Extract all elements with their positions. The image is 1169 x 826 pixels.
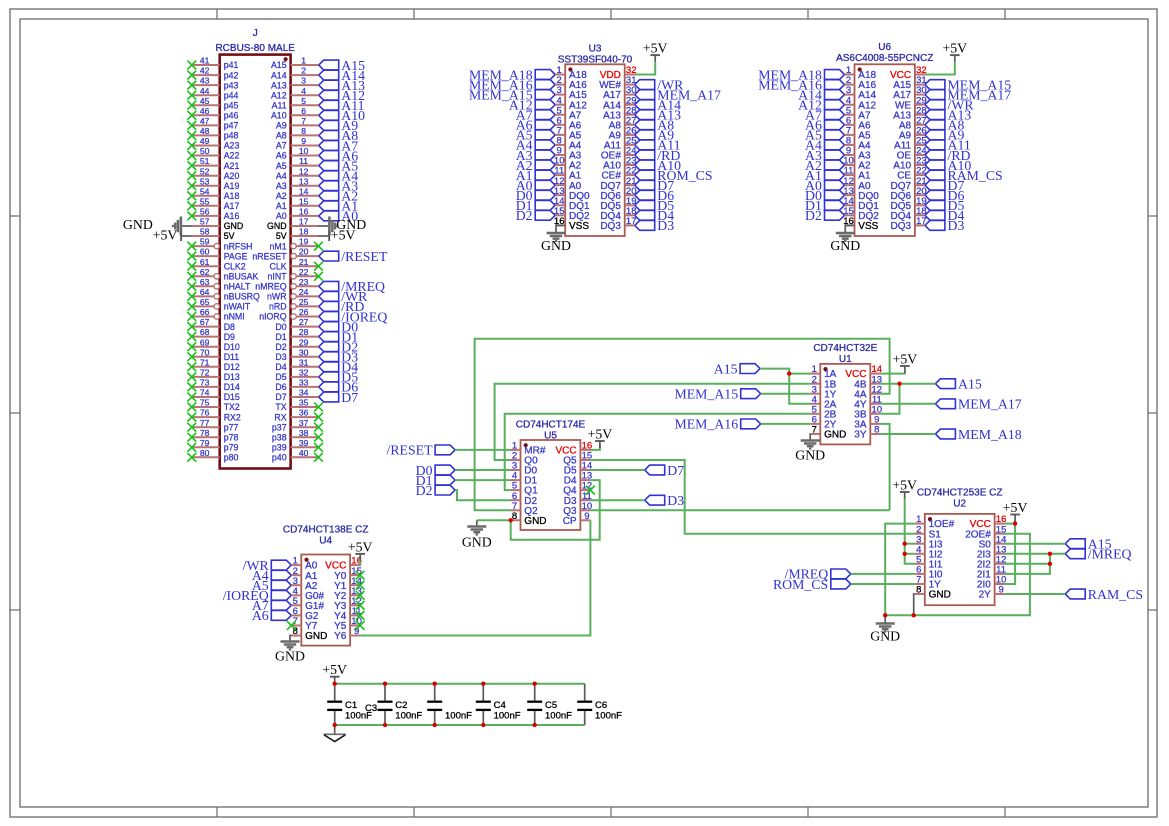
net label /RD xyxy=(925,148,971,163)
svg-text:D3: D3 xyxy=(948,218,965,233)
net label A12 xyxy=(319,88,365,103)
net label A0 xyxy=(805,178,844,193)
J pin 79 (p79) xyxy=(192,438,239,453)
svg-text:67: 67 xyxy=(200,317,210,327)
no-connect X xyxy=(187,272,196,281)
net label D3 xyxy=(319,350,359,365)
wire U2 2I2 tap xyxy=(1005,563,1050,565)
junction +5V/1I2 xyxy=(903,552,907,556)
+5V stem to rail xyxy=(334,683,336,685)
wire U5 Q5 to U2 S1 xyxy=(590,460,914,534)
J pin 32 (D5) xyxy=(275,368,318,383)
svg-text:RX2: RX2 xyxy=(224,412,241,422)
svg-text:100nF: 100nF xyxy=(545,710,572,721)
svg-text:42: 42 xyxy=(200,66,210,76)
J pin 54 (A18) xyxy=(192,186,240,201)
wire U1 4Y to MEM_A17 xyxy=(880,403,935,405)
U5 pin 15 (Q5) xyxy=(563,451,592,467)
svg-text:A16: A16 xyxy=(224,211,240,221)
svg-text:30: 30 xyxy=(299,347,309,357)
svg-text:A12: A12 xyxy=(271,90,287,100)
wire U1 3Y to MEM_A18 xyxy=(880,433,935,435)
net label A12 xyxy=(798,98,844,113)
U6 pin 21 (DQ7) xyxy=(891,176,927,192)
net label MEM_A16 xyxy=(469,77,555,92)
U3 pin 1 (A18) xyxy=(555,65,587,81)
junction U2 VCC xyxy=(1013,521,1017,525)
J pin 19 (nM1) xyxy=(269,237,318,252)
J pin 76 (RX2) xyxy=(192,408,241,423)
net label A3 xyxy=(805,148,844,163)
J GND power (pin 17) xyxy=(319,225,329,227)
U6 pin 9 (A3) xyxy=(845,146,871,162)
IC U2 body xyxy=(925,514,995,605)
svg-text:39: 39 xyxy=(299,438,309,448)
svg-text:59: 59 xyxy=(200,237,210,247)
svg-text:34: 34 xyxy=(299,388,309,398)
svg-text:27: 27 xyxy=(299,317,309,327)
U6 pin 14 (DQ1) xyxy=(843,196,879,212)
svg-text:52: 52 xyxy=(200,166,210,176)
U6 pin 24 (OE) xyxy=(897,146,927,162)
svg-text:77: 77 xyxy=(200,418,210,428)
U2 pin 2 (S1) xyxy=(915,524,941,540)
svg-text:9: 9 xyxy=(584,511,589,522)
U1 pin 1 (1A) xyxy=(810,364,836,380)
svg-text:GND: GND xyxy=(830,238,860,253)
J pin 24 (nWR) xyxy=(267,287,318,302)
wire /MREQ branch to 2I1 xyxy=(1005,554,1050,574)
no-connect X xyxy=(187,242,196,251)
no-connect X xyxy=(187,352,196,361)
J pin 71 (D12) xyxy=(192,357,240,372)
U6 pin 19 (DQ5) xyxy=(891,196,927,212)
wire +5V decoupling top rail xyxy=(335,683,585,685)
U1 pin 11 (4Y) xyxy=(854,394,881,410)
IC U4 reference/value labels xyxy=(283,524,369,546)
net label MEM_A16 xyxy=(674,417,760,432)
J pin 61 (CLK2) xyxy=(192,257,246,272)
svg-text:2: 2 xyxy=(301,66,306,76)
net label D0 xyxy=(319,319,359,334)
net label /IOREQ xyxy=(319,309,388,324)
ground symbol (U4) xyxy=(275,642,305,664)
net label D5 xyxy=(319,370,359,385)
wire U2 1I2 tap xyxy=(905,553,915,555)
svg-text:13: 13 xyxy=(299,176,309,186)
svg-text:GND: GND xyxy=(795,448,825,463)
svg-text:GND: GND xyxy=(275,649,305,664)
svg-text:69: 69 xyxy=(200,337,210,347)
U3 pin 24 (OE#) xyxy=(601,146,637,162)
wire U2 VCC xyxy=(1005,523,1016,525)
svg-text:1: 1 xyxy=(301,56,306,66)
J pin 68 (D9) xyxy=(192,327,235,342)
U1 pin 5 (2B) xyxy=(810,404,836,420)
svg-text:D7: D7 xyxy=(275,392,286,402)
no-connect X xyxy=(187,71,196,80)
J pin 69 (D10) xyxy=(192,337,240,352)
net label ROM_CS xyxy=(635,168,713,183)
J pin 14 (A2) xyxy=(276,186,319,201)
U2 pin 1 (1OE#) xyxy=(915,514,955,530)
U6 pin 6 (A6) xyxy=(845,115,871,131)
J pin 50 (A22) xyxy=(192,146,240,161)
U3 pin 9 (A3) xyxy=(555,146,581,162)
svg-text:A11: A11 xyxy=(272,100,287,110)
U5 pin 14 (D5) xyxy=(564,461,592,477)
junction /MREQ/2I3 xyxy=(1048,552,1052,556)
U3 pin 2 (A16) xyxy=(555,75,587,91)
no-connect X xyxy=(187,121,196,130)
no-connect X xyxy=(187,141,196,150)
svg-text:A21: A21 xyxy=(224,161,240,171)
svg-text:D9: D9 xyxy=(224,332,235,342)
net label /RESET xyxy=(319,249,388,264)
U6 pin 23 (A10) xyxy=(893,156,926,172)
svg-text:28: 28 xyxy=(299,327,309,337)
svg-text:SST39SF040-70: SST39SF040-70 xyxy=(558,55,633,66)
U6 pin 28 (A13) xyxy=(893,105,926,121)
J pin 55 (A17) xyxy=(192,196,240,211)
U3 pin 25 (A11) xyxy=(604,136,637,152)
U6 pin 26 (A9) xyxy=(899,126,927,142)
no-connect X xyxy=(187,292,196,301)
net label A10 xyxy=(319,108,365,123)
svg-text:100nF: 100nF xyxy=(445,710,472,721)
svg-text:17: 17 xyxy=(916,216,927,227)
J pin 13 (A3) xyxy=(276,176,319,191)
no-connect X xyxy=(187,433,196,442)
svg-text:DQ3: DQ3 xyxy=(600,221,621,232)
svg-text:U4: U4 xyxy=(319,535,332,546)
svg-text:A18: A18 xyxy=(224,191,240,201)
U3 pin 7 (A5) xyxy=(555,126,581,142)
wire D0 to U5 xyxy=(455,469,510,471)
net label A11 xyxy=(635,138,681,153)
no-connect X xyxy=(187,61,196,70)
svg-text:GND: GND xyxy=(824,430,846,441)
+5V power (U5) xyxy=(588,426,613,448)
svg-text:A22: A22 xyxy=(224,151,240,161)
svg-text:p78: p78 xyxy=(224,432,239,442)
svg-text:ROM_CS: ROM_CS xyxy=(773,577,828,592)
svg-text:19: 19 xyxy=(299,237,309,247)
J pin 51 (A21) xyxy=(192,156,240,171)
no-connect X xyxy=(356,571,365,580)
no-connect X xyxy=(187,373,196,382)
svg-text:66: 66 xyxy=(200,307,210,317)
svg-text:AS6C4008-55PCNCZ: AS6C4008-55PCNCZ xyxy=(836,53,933,64)
svg-text:A19: A19 xyxy=(224,181,240,191)
svg-text:41: 41 xyxy=(200,56,210,66)
U3 pin 28 (A13) xyxy=(603,105,636,121)
U3 pin 18 (DQ4) xyxy=(600,206,636,222)
svg-text:p37: p37 xyxy=(272,422,287,432)
wire A15 to U1 1A xyxy=(760,369,810,374)
J pin 31 (D4) xyxy=(275,357,318,372)
net label A8 xyxy=(319,128,359,143)
svg-text:GND: GND xyxy=(462,535,492,550)
svg-text:+5V: +5V xyxy=(892,477,917,492)
U2 pin 7 (1Y) xyxy=(915,575,941,591)
U5 pin 12 (Q4) xyxy=(563,481,592,497)
net label A10 xyxy=(925,158,971,173)
svg-text:GND: GND xyxy=(305,631,327,642)
net label /MREQ xyxy=(1065,547,1131,562)
svg-text:GND: GND xyxy=(929,590,951,601)
U1 GND connection xyxy=(809,434,811,441)
svg-text:A14: A14 xyxy=(271,70,287,80)
svg-text:RCBUS-80 MALE: RCBUS-80 MALE xyxy=(215,43,295,54)
connector J (RCBUS-80 MALE) body xyxy=(220,55,291,469)
svg-text:17: 17 xyxy=(299,217,309,227)
+5V power (U1) xyxy=(893,351,918,373)
net label A11 xyxy=(319,98,365,113)
capacitor C2 100nF xyxy=(378,684,423,725)
J pin 72 (D13) xyxy=(192,368,240,383)
no-connect X xyxy=(187,101,196,110)
U6 pin 29 (WE) xyxy=(895,95,927,111)
U1 pin 7 (GND) xyxy=(810,425,846,441)
U3 pin 26 (A9) xyxy=(609,126,637,142)
wire U5 D4 to GND tie xyxy=(511,480,600,540)
svg-text:11: 11 xyxy=(299,156,308,166)
U1 pin 8 (3Y) xyxy=(854,425,880,441)
U6 pin 25 (A11) xyxy=(894,136,927,152)
svg-text:GND: GND xyxy=(123,217,153,232)
J pin 43 (p43) xyxy=(192,76,239,91)
no-connect X xyxy=(187,131,196,140)
svg-text:76: 76 xyxy=(200,408,210,418)
J GND left text xyxy=(123,217,153,232)
svg-text:D13: D13 xyxy=(224,372,240,382)
svg-text:60: 60 xyxy=(200,247,210,257)
net label A5 xyxy=(805,128,844,143)
wire A15 branch to U1 3B xyxy=(880,384,899,414)
svg-text:75: 75 xyxy=(200,398,210,408)
J pin 27 (D0) xyxy=(275,317,318,332)
no-connect X xyxy=(187,393,196,402)
svg-text:31: 31 xyxy=(299,357,309,367)
net label A6 xyxy=(319,148,359,163)
U2 pin 15 (2OE#) xyxy=(965,524,1006,540)
J pin 6 (A10) xyxy=(271,106,319,121)
J pin 23 (nMREQ) xyxy=(255,277,318,292)
U6 VSS ground connection xyxy=(845,225,854,233)
U2 pin 6 (1I0) xyxy=(915,565,943,581)
net label D1 xyxy=(319,329,359,344)
J pin 7 (A9) xyxy=(276,116,319,131)
U3 VSS ground connection xyxy=(556,225,565,233)
svg-text:MEM_A16: MEM_A16 xyxy=(674,417,738,432)
U5 pin 5 (Q1) xyxy=(511,481,539,497)
svg-text:5V: 5V xyxy=(276,231,287,241)
U4 pin 6 (G2) xyxy=(291,606,319,622)
J pin 39 (p39) xyxy=(272,438,319,453)
no-connect X xyxy=(187,91,196,100)
svg-text:CP: CP xyxy=(563,516,577,527)
svg-text:A9: A9 xyxy=(276,121,287,131)
J GND right text xyxy=(336,217,366,232)
svg-text:D11: D11 xyxy=(224,352,240,362)
net label A15 xyxy=(1065,537,1111,552)
U6 pin 22 (CE) xyxy=(897,166,926,182)
U3 pin 19 (DQ5) xyxy=(600,196,636,212)
net label D6 xyxy=(635,188,675,203)
no-connect X xyxy=(356,611,365,620)
no-connect X xyxy=(187,383,196,392)
J pin 21 (CLK) xyxy=(269,257,318,272)
U3 pin 32 (VDD) xyxy=(600,65,637,81)
J pin 33 (D6) xyxy=(275,378,318,393)
U1 pin 6 (2Y) xyxy=(810,415,836,431)
svg-text:40: 40 xyxy=(299,448,309,458)
svg-text:48: 48 xyxy=(200,126,210,136)
svg-text:D10: D10 xyxy=(224,342,240,352)
svg-text:35: 35 xyxy=(299,398,309,408)
no-connect X xyxy=(187,161,196,170)
net label /WR xyxy=(925,98,974,113)
U1 pin 9 (3A) xyxy=(854,415,880,431)
no-connect X xyxy=(187,423,196,432)
junction cap bottom rail xyxy=(433,723,437,727)
J pin 77 (p77) xyxy=(192,418,239,433)
svg-text:100nF: 100nF xyxy=(595,710,622,721)
J pin 63 (nHALT) xyxy=(192,277,251,292)
J pin 9 (A7) xyxy=(276,136,319,151)
svg-text:29: 29 xyxy=(299,337,309,347)
J pin 57 (GND) xyxy=(192,217,243,232)
J pin 34 (D7) xyxy=(275,388,318,403)
net label /WR xyxy=(243,558,292,573)
net label D7 xyxy=(635,178,675,193)
connector J reference/value labels xyxy=(215,28,295,54)
U2 pin 14 (S0) xyxy=(979,534,1007,550)
wire U5 Q1 to U1 2B xyxy=(505,414,811,490)
svg-text:CD74HCT253E CZ: CD74HCT253E CZ xyxy=(917,488,1003,499)
U6 pin 10 (A2) xyxy=(843,156,871,172)
ground symbol (U5) xyxy=(462,527,492,550)
junction A15/4B/3B xyxy=(897,382,901,386)
no-connect X xyxy=(356,621,365,630)
svg-text:p79: p79 xyxy=(224,443,239,453)
net label D7 xyxy=(925,178,965,193)
no-connect X xyxy=(187,151,196,160)
U5 pin 8 (GND) xyxy=(511,511,547,527)
svg-text:58: 58 xyxy=(200,227,210,237)
svg-text:D14: D14 xyxy=(224,382,240,392)
svg-text:nBUSAK: nBUSAK xyxy=(224,272,259,282)
wire U2 S0 to A15 xyxy=(1005,543,1066,545)
U6 pin 16 (VSS) xyxy=(843,216,878,232)
U6 pin 15 (DQ2) xyxy=(843,206,879,222)
no-connect X xyxy=(187,413,196,422)
wire U5 D3 to D3 xyxy=(590,499,644,501)
svg-text:VSS: VSS xyxy=(569,221,589,232)
net label A15 xyxy=(935,377,981,392)
no-connect X xyxy=(187,191,196,200)
wire U5 Q2 to U1 4A xyxy=(475,339,890,511)
wire GND rail to U2 2OE# xyxy=(885,534,1030,616)
svg-text:CD74HCT32E: CD74HCT32E xyxy=(813,343,877,354)
svg-text:54: 54 xyxy=(200,186,210,196)
net label A5 xyxy=(516,128,555,143)
svg-text:49: 49 xyxy=(200,136,210,146)
svg-text:51: 51 xyxy=(200,156,210,166)
svg-text:5: 5 xyxy=(301,96,306,106)
U4 pin 14 (Y1) xyxy=(334,576,362,592)
+5V power (decoupling rail) xyxy=(322,662,347,684)
svg-text:22: 22 xyxy=(299,267,309,277)
no-connect X xyxy=(187,362,196,371)
U6 pin 11 (A1) xyxy=(844,166,871,182)
U3 pin 11 (A1) xyxy=(554,166,581,182)
svg-text:CLK: CLK xyxy=(269,261,286,271)
U4 pin 5 (G1#) xyxy=(291,596,324,612)
wire U5 VCC to +5V xyxy=(590,445,600,450)
U6 pin 1 (A18) xyxy=(845,65,877,81)
net label A9 xyxy=(925,128,965,143)
net label /WR xyxy=(635,77,684,92)
U4 pin 12 (Y3) xyxy=(334,596,362,612)
net label A0 xyxy=(319,209,359,224)
svg-text:p38: p38 xyxy=(272,432,287,442)
svg-text:nBUSRQ: nBUSRQ xyxy=(224,292,260,302)
no-connect X xyxy=(187,111,196,120)
net label D7 xyxy=(319,390,359,405)
J pin 26 (nIORQ) xyxy=(259,307,318,322)
J pin 4 (A12) xyxy=(271,86,319,101)
svg-text:24: 24 xyxy=(299,287,309,297)
net label /RESET xyxy=(387,443,456,458)
svg-text:p43: p43 xyxy=(224,80,239,90)
net label D0 xyxy=(805,188,844,203)
J pin 66 (nNMI) xyxy=(192,307,245,322)
U3 pin 17 (DQ3) xyxy=(600,216,636,232)
J pin 12 (A4) xyxy=(276,166,319,181)
J pin 8 (A8) xyxy=(276,126,319,141)
J pin 64 (nBUSRQ) xyxy=(192,287,260,302)
svg-text:MEM_A15: MEM_A15 xyxy=(674,387,738,402)
svg-text:100nF: 100nF xyxy=(494,710,521,721)
no-connect X xyxy=(187,181,196,190)
svg-text:56: 56 xyxy=(200,207,210,217)
junction cap top rail xyxy=(383,682,387,686)
wire U6 VCC to +5V xyxy=(925,62,955,74)
svg-text:p46: p46 xyxy=(224,111,239,121)
U6 pin 18 (DQ4) xyxy=(891,206,927,222)
U3 pin 22 (CE#) xyxy=(601,166,636,182)
net label A2 xyxy=(805,158,844,173)
U3 pin 23 (A10) xyxy=(603,156,636,172)
wire U4 Y6 to U5 CP xyxy=(360,520,590,635)
net label D5 xyxy=(925,198,965,213)
net label A3 xyxy=(516,148,555,163)
wire U1 3A to U5 Q3 xyxy=(590,509,889,511)
J GND power (pin 57) xyxy=(182,225,192,227)
svg-text:64: 64 xyxy=(200,287,210,297)
no-connect X xyxy=(187,312,196,321)
U5 pin 9 (CP) xyxy=(563,511,591,527)
svg-text:A15: A15 xyxy=(271,60,287,70)
wire U5 GND to ground xyxy=(477,519,511,521)
svg-text:9: 9 xyxy=(998,585,1003,596)
net label D4 xyxy=(635,208,675,223)
no-connect X xyxy=(187,201,196,210)
junction U5 GND/D4 tie xyxy=(509,518,513,522)
U5 pin 16 (VCC) xyxy=(555,441,592,457)
